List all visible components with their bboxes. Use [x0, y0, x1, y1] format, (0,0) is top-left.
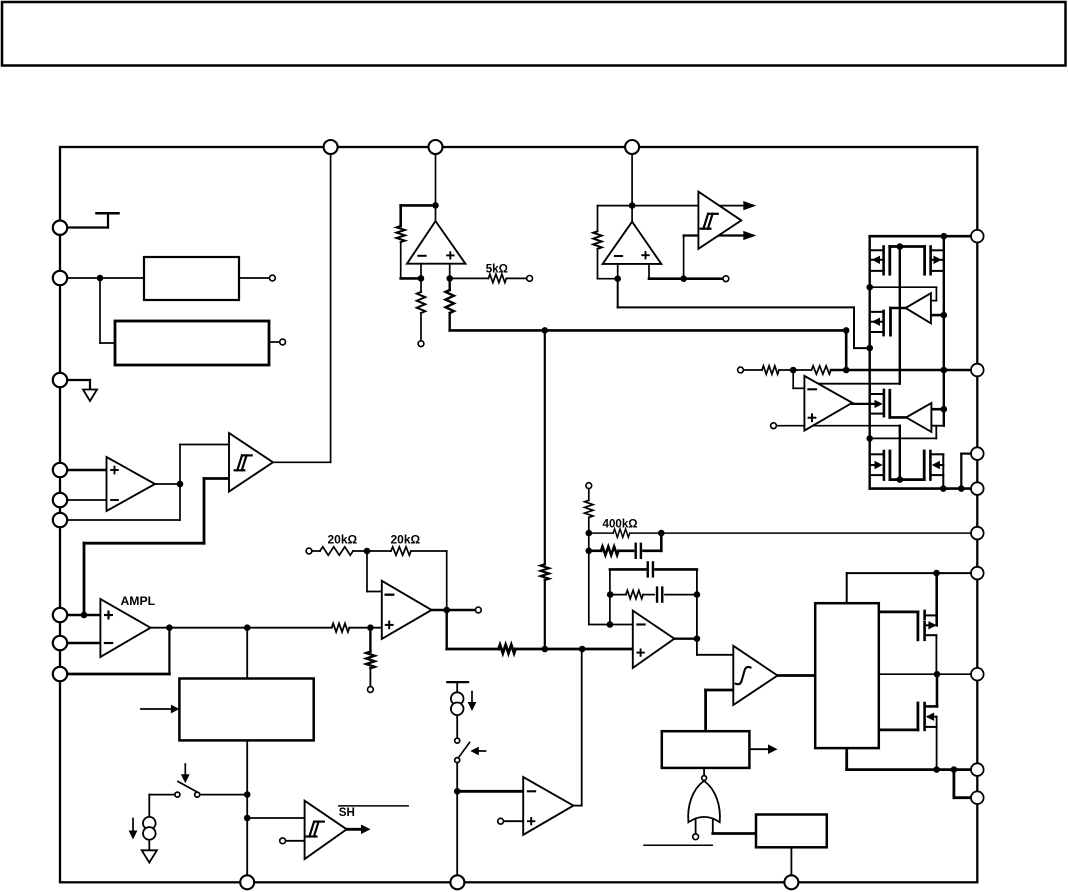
svg-text:AMPL: AMPL [121, 594, 156, 608]
svg-text:400kΩ: 400kΩ [603, 518, 638, 531]
svg-text:20kΩ: 20kΩ [328, 532, 358, 546]
svg-text:SH: SH [339, 806, 355, 819]
svg-text:5kΩ: 5kΩ [486, 263, 508, 276]
svg-text:20kΩ: 20kΩ [391, 532, 421, 546]
